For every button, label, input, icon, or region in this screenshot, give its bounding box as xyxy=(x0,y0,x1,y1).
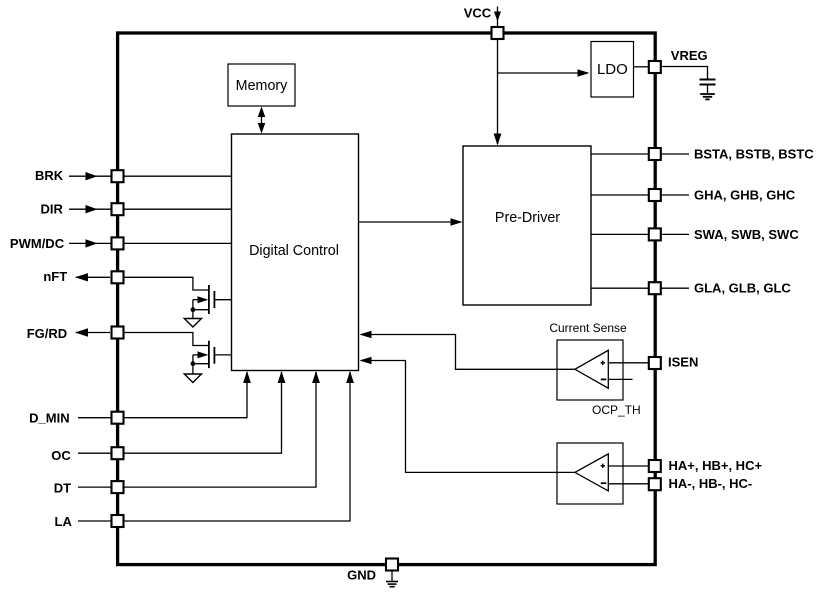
pin PWM/DC xyxy=(112,237,124,249)
pin OC xyxy=(112,447,124,459)
node BRK label xyxy=(35,168,64,183)
wire DIR label arrow to pin xyxy=(69,205,111,213)
wire BRK pin to Digital Control xyxy=(125,175,232,177)
pin VCC xyxy=(492,27,504,39)
wire ISEN pin to comparator + input xyxy=(608,362,648,364)
svg-text:LDO: LDO xyxy=(597,61,628,78)
node HA+, HB+, HC+ label xyxy=(669,458,763,473)
Current Sense comparator U2 box xyxy=(557,340,623,400)
Memory block xyxy=(228,64,295,106)
wire nFT pin arrow to label xyxy=(75,273,110,281)
pin VREG xyxy=(649,61,661,73)
pin LA xyxy=(112,515,124,527)
comparator U2 triangle xyxy=(575,350,608,388)
node SWA, SWB, SWC label xyxy=(694,227,799,242)
wire LA pin to Digital Control bottom xyxy=(125,371,354,521)
svg-text:LA: LA xyxy=(55,514,73,529)
label Current Sense xyxy=(549,321,627,335)
svg-text:OCP_TH: OCP_TH xyxy=(592,403,641,417)
label OCP_TH xyxy=(592,403,641,417)
wire VREG to capacitor xyxy=(661,67,708,80)
comparator U3 triangle xyxy=(575,454,608,491)
pin FG/RD xyxy=(112,327,124,339)
pin nFT xyxy=(112,271,124,283)
wire comparator U2 output to Digital Control xyxy=(360,331,575,370)
node HA-, HB-, HC- label xyxy=(669,476,753,491)
pin GLA, GLB, GLC xyxy=(649,282,661,294)
pin BSTA, BSTB, BSTC xyxy=(649,148,661,160)
pin GHA, GHB, GHC xyxy=(649,189,661,201)
pin HA-, HB-, HC- xyxy=(649,478,661,490)
svg-text:VCC: VCC xyxy=(464,5,492,20)
wire VCC to Pre-Driver xyxy=(494,40,502,146)
node GLA, GLB, GLC label xyxy=(694,281,791,296)
ground symbol at VREG capacitor xyxy=(700,94,715,99)
wire Pre-Driver to GLA pin xyxy=(591,287,648,289)
svg-text:FG/RD: FG/RD xyxy=(27,326,67,341)
wire LA label to pin xyxy=(78,520,111,522)
wire FG/RD pin to transistor Q2 drain xyxy=(125,333,209,346)
wire BRK label arrow to pin xyxy=(69,172,111,180)
svg-text:OC: OC xyxy=(51,448,71,463)
wire comparator U3 output to Digital Control xyxy=(360,357,575,473)
wire Pre-Driver to GHA pin xyxy=(591,194,648,196)
wire OC label to pin xyxy=(78,452,111,454)
wire PWM/DC label arrow to pin xyxy=(69,239,111,247)
wire GLA pin to label xyxy=(661,287,689,289)
node GND label xyxy=(347,568,376,583)
svg-text:GHA, GHB, GHC: GHA, GHB, GHC xyxy=(694,187,796,202)
chip outline U1 xyxy=(118,33,656,565)
wire Pre-Driver to BSTA pin xyxy=(591,153,648,155)
svg-text:VREG: VREG xyxy=(671,48,708,63)
wire FG/RD pin arrow to label xyxy=(75,328,110,336)
node OC label xyxy=(51,448,71,463)
node VREG label xyxy=(671,48,708,63)
node PWM/DC label xyxy=(10,236,65,251)
pin D_MIN xyxy=(112,412,124,424)
wire LDO to VREG pin xyxy=(634,66,649,68)
wire nFT pin to transistor Q1 drain xyxy=(125,277,209,290)
LDO block xyxy=(591,42,634,98)
svg-text:PWM/DC: PWM/DC xyxy=(10,236,65,251)
svg-text:HA-, HB-, HC-: HA-, HB-, HC- xyxy=(669,476,753,491)
wire SWA pin to label xyxy=(661,233,689,235)
transistor Q2 (FG/RD open-drain FET) xyxy=(191,341,232,368)
svg-text:DT: DT xyxy=(54,480,71,495)
wire Pre-Driver to SWA pin xyxy=(591,233,648,235)
svg-text:HA+, HB+, HC+: HA+, HB+, HC+ xyxy=(669,458,763,473)
svg-text:ISEN: ISEN xyxy=(668,354,698,369)
node LA label xyxy=(55,514,73,529)
pin DT xyxy=(112,481,124,493)
wire GHA pin to label xyxy=(661,194,689,196)
svg-text:Pre-Driver: Pre-Driver xyxy=(495,210,560,226)
svg-text:GLA, GLB, GLC: GLA, GLB, GLC xyxy=(694,281,791,296)
transistor Q1 (nFT open-drain FET) xyxy=(191,285,232,314)
svg-text:BRK: BRK xyxy=(35,168,64,183)
Digital Control block xyxy=(232,134,359,371)
ground symbol at Q2 source xyxy=(184,364,201,383)
wire VCC branch to LDO xyxy=(498,69,590,77)
svg-text:nFT: nFT xyxy=(43,269,67,284)
wire PWM/DC pin to Digital Control xyxy=(125,242,232,244)
pin DIR xyxy=(112,203,124,215)
pin BRK xyxy=(112,170,124,182)
node ISEN label xyxy=(668,354,698,369)
ground symbol at GND pin xyxy=(386,571,398,587)
wire VCC external arrow xyxy=(494,7,501,27)
wire D_MIN pin to Digital Control bottom xyxy=(125,371,251,418)
wire HA+ pin to comparator + input xyxy=(608,465,648,467)
svg-text:GND: GND xyxy=(347,568,376,583)
wire BSTA pin to label xyxy=(661,153,689,155)
wire OC pin to Digital Control bottom xyxy=(125,371,286,453)
pin ISEN xyxy=(649,357,661,369)
Hall comparator U3 box xyxy=(557,443,623,504)
wire OCP_TH stub to comparator - input xyxy=(608,378,632,380)
svg-text:Current Sense: Current Sense xyxy=(549,321,627,335)
svg-text:Digital Control: Digital Control xyxy=(249,243,339,259)
node FG/RD label xyxy=(27,326,67,341)
pin GND xyxy=(386,559,398,571)
wire HA- pin to comparator - input xyxy=(608,483,648,485)
svg-text:BSTA, BSTB, BSTC: BSTA, BSTB, BSTC xyxy=(694,146,814,161)
capacitor C1 on VREG xyxy=(700,80,716,94)
svg-text:D_MIN: D_MIN xyxy=(29,411,69,426)
node D_MIN label xyxy=(29,411,69,426)
pin SWA, SWB, SWC xyxy=(649,228,661,240)
node DIR label xyxy=(41,202,64,217)
node BSTA, BSTB, BSTC label xyxy=(694,146,814,161)
node VCC label xyxy=(464,5,492,20)
node DT label xyxy=(54,480,71,495)
wire DIR pin to Digital Control xyxy=(125,208,232,210)
node nFT label xyxy=(43,269,67,284)
svg-text:DIR: DIR xyxy=(41,202,64,217)
wire memory to digital control (bidirectional arrow) xyxy=(258,107,266,134)
wire DT pin to Digital Control bottom xyxy=(125,371,320,487)
svg-text:Memory: Memory xyxy=(236,78,288,94)
pin HA+, HB+, HC+ xyxy=(649,460,661,472)
wire DT label to pin xyxy=(78,486,111,488)
node GHA, GHB, GHC label xyxy=(694,187,796,202)
Pre-Driver block xyxy=(463,146,591,305)
wire DC to Pre-Driver xyxy=(359,218,463,226)
wire D_MIN label to pin xyxy=(78,417,111,419)
svg-text:SWA, SWB, SWC: SWA, SWB, SWC xyxy=(694,227,799,242)
ground symbol at Q1 source xyxy=(184,310,201,327)
